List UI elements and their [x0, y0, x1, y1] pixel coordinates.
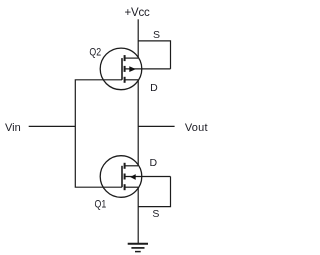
- ground: [128, 244, 148, 252]
- svg-text:Vout: Vout: [185, 122, 208, 134]
- Vout wire: [138, 125, 174, 127]
- svg-text:Vin: Vin: [5, 122, 21, 134]
- svg-text:Q2: Q2: [89, 47, 101, 59]
- svg-text:D: D: [150, 82, 158, 94]
- Q2 source-body tie wire: [138, 41, 170, 69]
- svg-text:S: S: [153, 29, 160, 41]
- transistor Q1: [100, 156, 142, 198]
- Q2 body lead wire to tie: [142, 68, 171, 70]
- wire Q1 source to ground: [137, 187, 139, 244]
- Vin wire: [29, 125, 76, 127]
- svg-text:S: S: [152, 208, 159, 220]
- Q1 source-body tie wire: [138, 177, 170, 207]
- transistor Q2: [100, 48, 142, 90]
- svg-text:+Vcc: +Vcc: [124, 7, 150, 19]
- gate bus wire: [75, 80, 122, 187]
- svg-text:Q1: Q1: [95, 199, 107, 211]
- wire Q2 drain to Q1 drain (output rail): [137, 80, 139, 166]
- +Vcc supply wire: [137, 19, 139, 58]
- Q1 body lead wire to tie: [142, 176, 171, 178]
- svg-text:D: D: [150, 157, 158, 169]
